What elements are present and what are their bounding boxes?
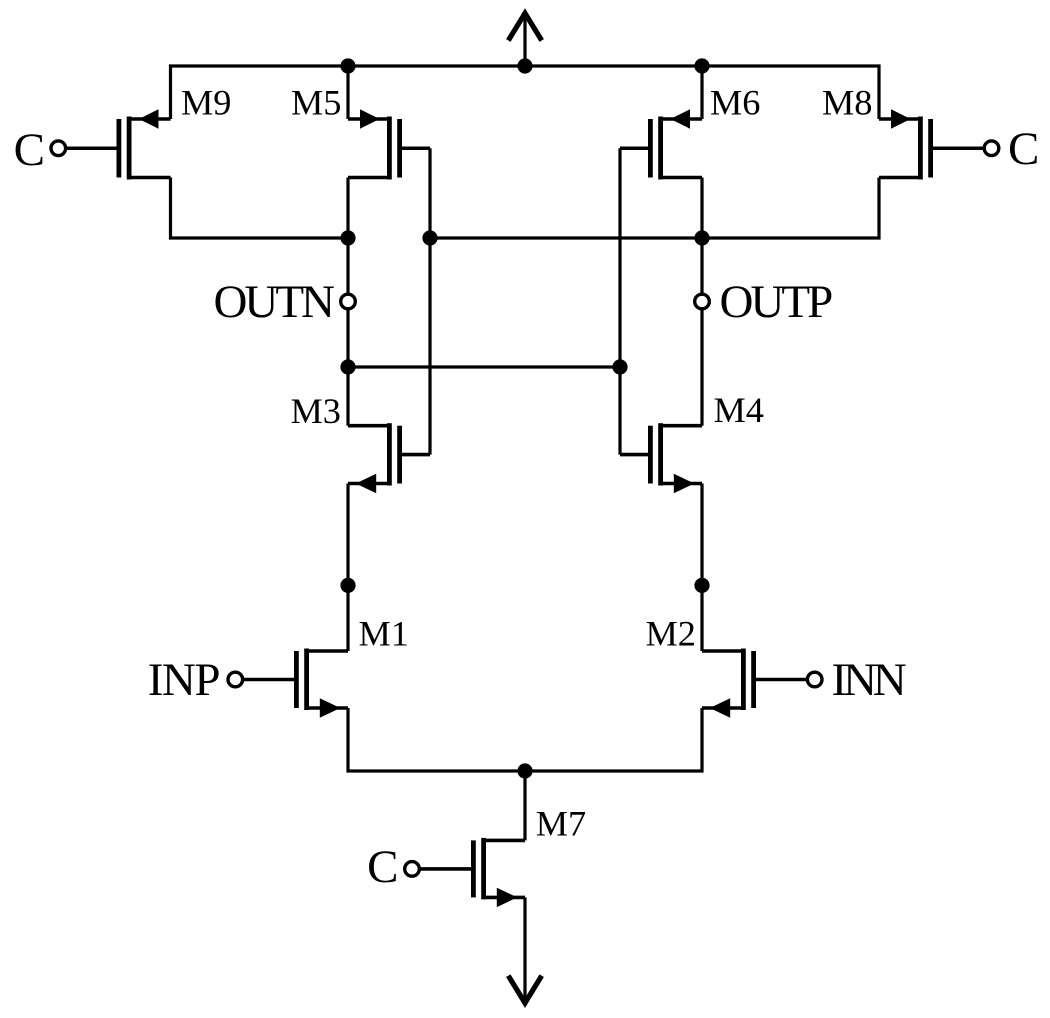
transistor M1 (NMOS)	[243, 649, 348, 718]
node M4-M2 junction	[694, 578, 709, 593]
node VDD centre junction	[517, 58, 532, 73]
svg-text:M2: M2	[646, 614, 696, 654]
wire M6-M4 gate column	[618, 148, 621, 454]
wire tail down	[523, 771, 526, 840]
node OUTP rail junction	[694, 230, 709, 245]
wire M5 drain	[346, 178, 349, 239]
wire M1 source to tail	[348, 708, 702, 771]
terminal OUTN	[341, 294, 356, 309]
wire OUTP column	[700, 238, 703, 426]
transistor M3 (NMOS)	[348, 423, 430, 493]
power VDD arrow	[508, 13, 541, 66]
wire OUTN to M6/M4 gates	[348, 365, 620, 368]
svg-text:M6: M6	[710, 83, 760, 123]
terminal INN	[807, 672, 822, 687]
transistor M6 (PMOS)	[620, 109, 702, 179]
terminal C (M9 gate)	[51, 141, 66, 156]
node gate column junction	[422, 230, 437, 245]
node M3-M1 junction	[340, 578, 355, 593]
svg-text:M5: M5	[291, 83, 341, 123]
transistor M9 (PMOS)	[66, 109, 171, 179]
wire M9 drain loop	[171, 178, 349, 239]
wire M4-M2	[700, 484, 703, 652]
wire M5 source	[346, 66, 349, 119]
wire M3-M1	[346, 484, 349, 652]
svg-text:OUTN: OUTN	[213, 276, 334, 328]
transistor M4 (NMOS)	[620, 423, 702, 493]
svg-text:M8: M8	[822, 83, 872, 123]
svg-text:M3: M3	[291, 391, 341, 431]
transistor M2 (NMOS)	[702, 649, 807, 718]
wire M8 drain loop	[430, 178, 879, 239]
terminal OUTP	[695, 294, 710, 309]
svg-text:INP: INP	[148, 654, 220, 706]
wire OUTN column	[346, 238, 349, 426]
svg-text:C: C	[14, 124, 45, 176]
svg-text:M9: M9	[181, 83, 231, 123]
wire M6 drain	[700, 178, 703, 239]
ground arrow	[508, 897, 541, 1003]
node VDD-M6 junction	[694, 58, 709, 73]
svg-text:M1: M1	[359, 614, 409, 654]
transistor M5 (PMOS)	[348, 109, 430, 179]
wire M5-M3 gate column	[428, 148, 431, 454]
svg-text:INN: INN	[832, 654, 906, 706]
transistor M8 (PMOS)	[879, 109, 984, 179]
wire M6 source	[700, 66, 703, 119]
node tail junction	[517, 763, 532, 778]
svg-text:C: C	[1008, 123, 1039, 175]
terminal INP	[228, 672, 243, 687]
wire VDD rail	[171, 66, 880, 119]
svg-text:M4: M4	[714, 390, 764, 430]
node cross-wire right junction	[612, 359, 627, 374]
node OUTN rail junction	[340, 230, 355, 245]
svg-text:M7: M7	[536, 804, 586, 844]
svg-text:OUTP: OUTP	[720, 276, 833, 328]
node VDD-M5 junction	[340, 58, 355, 73]
terminal C (M7 gate)	[405, 862, 420, 877]
terminal C (M8 gate)	[984, 141, 999, 156]
svg-text:C: C	[367, 841, 398, 893]
node OUTN cross junction	[340, 359, 355, 374]
transistor M7 (NMOS)	[419, 838, 525, 907]
